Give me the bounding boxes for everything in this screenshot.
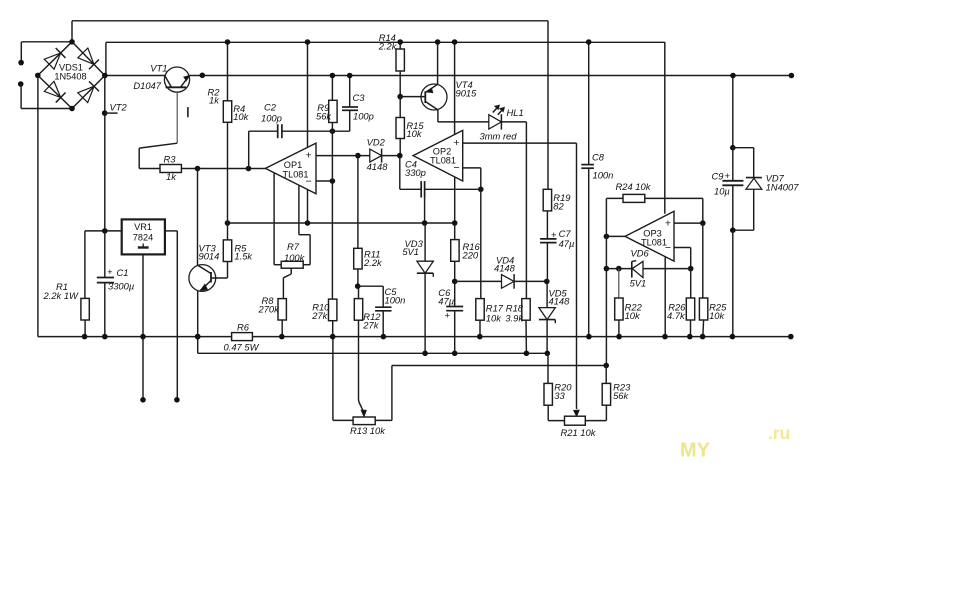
svg-text:C8: C8 [592, 152, 605, 163]
label R22 [625, 301, 643, 321]
resistor R26 [686, 269, 694, 340]
label R23 [613, 381, 631, 400]
wire OP3 + input [674, 220, 706, 226]
label R6 [224, 322, 260, 353]
resistor R17 [476, 189, 484, 339]
capacitor C9 [722, 148, 743, 231]
svg-text:4148: 4148 [549, 296, 571, 307]
svg-text:OP1: OP1 [284, 160, 302, 170]
wire OP1 V- pin [307, 189, 309, 223]
label VDS1 [54, 62, 86, 81]
label VD7 [766, 173, 800, 193]
svg-text:7824: 7824 [133, 233, 153, 243]
capacitor C4 [400, 156, 481, 198]
svg-text:9015: 9015 [456, 88, 478, 99]
wire second bus H2 [106, 42, 665, 75]
svg-text:+: + [725, 171, 731, 182]
svg-text:2.2k: 2.2k [363, 257, 383, 268]
svg-text:R24 10k: R24 10k [616, 181, 652, 192]
svg-text:R13 10k: R13 10k [350, 425, 386, 436]
svg-text:3.9k: 3.9k [505, 312, 524, 323]
node AC input upper [18, 42, 24, 65]
diode VD2 [370, 149, 400, 163]
label VD2 [367, 136, 389, 172]
label VD3 [402, 238, 423, 257]
label C6 [438, 287, 454, 306]
svg-text:33: 33 [554, 390, 565, 401]
svg-text:270k: 270k [258, 303, 281, 314]
label R8 [258, 295, 281, 315]
wire negative rail [198, 337, 548, 354]
label R19 [553, 192, 571, 212]
resistor R5 [211, 223, 232, 278]
svg-text:10k: 10k [406, 128, 422, 139]
wire OP3 output [603, 198, 625, 368]
label R11 [363, 248, 383, 268]
node VT3 emitter junction [195, 334, 201, 340]
wire OP1 + input [316, 153, 370, 159]
svg-text:1N4007: 1N4007 [766, 182, 800, 193]
svg-text:VD6: VD6 [631, 248, 650, 259]
label C1 [108, 267, 134, 292]
svg-text:5V1: 5V1 [402, 246, 419, 257]
wire VT4 collector to HL1 [438, 110, 489, 122]
resistor R11 [354, 156, 362, 289]
svg-text:47µ: 47µ [559, 238, 575, 249]
svg-text:C1: C1 [117, 267, 129, 278]
node VT4 base junction [397, 94, 403, 100]
svg-text:330p: 330p [405, 167, 426, 178]
svg-text:+: + [305, 149, 311, 161]
svg-text:4148: 4148 [367, 161, 389, 172]
label R21 [561, 427, 597, 438]
svg-text:TL081: TL081 [641, 237, 667, 247]
transistor VT3 [189, 265, 216, 340]
diode VD7 [733, 148, 762, 231]
potentiometer R13 [333, 417, 392, 425]
node AC input lower [18, 81, 72, 108]
op-amp OP2 [413, 130, 463, 181]
label VT4 [456, 79, 478, 99]
svg-text:47µ: 47µ [438, 295, 454, 306]
svg-text:27k: 27k [311, 310, 328, 321]
watermark [680, 423, 790, 462]
capacitor C5 [358, 286, 392, 339]
svg-text:VT2: VT2 [110, 102, 128, 113]
resistor R8 [278, 268, 291, 339]
label R12 [362, 311, 381, 330]
label C4 [405, 158, 426, 178]
svg-text:1N5408: 1N5408 [54, 71, 86, 81]
wire ground bus [38, 334, 794, 340]
label C7 [559, 228, 575, 249]
op-amp OP3 [625, 211, 674, 261]
svg-text:2.2k 1W: 2.2k 1W [43, 290, 80, 301]
svg-text:100n: 100n [593, 170, 614, 181]
zener diode VD6 [606, 261, 690, 278]
svg-text:+: + [444, 310, 450, 321]
svg-text:R21 10k: R21 10k [561, 427, 597, 438]
label R25 [709, 301, 727, 321]
wire top bus H1 [72, 21, 548, 42]
op-amp OP1 [265, 143, 316, 194]
wire OP2 V+ pin [452, 39, 458, 135]
resistor R19 [543, 189, 551, 211]
svg-text:1.5k: 1.5k [234, 251, 253, 262]
svg-text:82: 82 [553, 201, 564, 212]
label R17 [486, 303, 504, 324]
svg-text:TL081: TL081 [282, 170, 308, 180]
wire C9 column top [730, 73, 736, 151]
capacitor C3 [332, 73, 358, 132]
svg-text:3mm red: 3mm red [480, 131, 518, 142]
svg-text:1k: 1k [166, 171, 177, 182]
resistor R24 [607, 194, 703, 223]
label R7 [284, 241, 306, 263]
resistor R6 [232, 333, 253, 341]
resistor R3 [139, 165, 265, 173]
node VT2 [102, 110, 118, 116]
wire C4 to H4 [422, 198, 428, 226]
svg-text:1k: 1k [209, 95, 220, 106]
resistor R1 [81, 231, 89, 340]
svg-text:TL081: TL081 [430, 156, 456, 166]
svg-text:10k: 10k [625, 310, 641, 321]
label VT3 [199, 243, 220, 262]
resistor R23 [585, 366, 610, 421]
capacitor C2 [249, 124, 336, 168]
wire raw supply column [104, 76, 106, 231]
node output terminal A [174, 397, 180, 403]
label C9 [712, 171, 731, 197]
svg-text:10µ: 10µ [714, 186, 730, 197]
wire bridge left rail [37, 75, 39, 336]
svg-text:R7: R7 [287, 241, 300, 252]
svg-text:4.7k: 4.7k [667, 310, 686, 321]
label R2 [208, 86, 221, 105]
label R5 [234, 242, 253, 261]
node output terminal B [140, 397, 146, 403]
resistor R22 [615, 266, 623, 340]
resistor R16 [451, 223, 459, 284]
transistor VT1 [164, 67, 189, 143]
resistor R9 [329, 73, 337, 132]
wire OP1 - input [316, 178, 335, 184]
wire main +raw bus H3 left [105, 75, 165, 77]
wire OP2 + input [463, 142, 577, 144]
svg-text:100p: 100p [261, 113, 282, 124]
capacitor C8 [581, 39, 594, 339]
label R10 [311, 301, 330, 321]
wire VR1 ground pin [140, 254, 146, 399]
wire R13 wiper [359, 400, 367, 417]
label R15 [406, 120, 424, 139]
zener diode VD5 [539, 281, 555, 356]
resistor R14 [396, 39, 404, 96]
svg-text:+: + [107, 267, 112, 277]
label R1 [43, 281, 80, 301]
svg-text:C9: C9 [712, 171, 725, 182]
label R3 [164, 154, 178, 183]
capacitor C6 [444, 281, 463, 356]
capacitor C1 [97, 231, 114, 340]
wire OP1 V+ pin [305, 39, 311, 148]
wire OP3 - input [674, 248, 694, 272]
resistor R25 [699, 223, 707, 339]
potentiometer R7 [274, 186, 310, 268]
capacitor C7 [540, 211, 557, 282]
svg-text:VD2: VD2 [367, 136, 386, 147]
transistor VT4 [400, 39, 447, 110]
resistor R18 [522, 143, 530, 356]
svg-text:56k: 56k [316, 110, 332, 121]
svg-text:R6: R6 [237, 322, 250, 333]
wire OP2 V- pin [452, 177, 458, 226]
svg-text:C3: C3 [353, 92, 366, 103]
wire OP2 wiper link [574, 143, 579, 416]
wire R10 to R13 [332, 337, 334, 421]
label VD5 [549, 287, 571, 306]
stray mark [187, 107, 189, 117]
svg-text:9014: 9014 [199, 251, 220, 262]
wire OP3 V- pin [662, 257, 668, 339]
wire H1 descender [547, 21, 549, 190]
svg-text:10k: 10k [486, 312, 502, 323]
svg-text:3300µ: 3300µ [108, 281, 134, 292]
resistor R20 [544, 353, 565, 420]
bridge rectifier VDS1 [35, 39, 108, 111]
label R16 [462, 241, 481, 260]
label R26 [667, 301, 686, 321]
svg-text:0.47 5W: 0.47 5W [224, 342, 260, 353]
diode VD4 [455, 274, 550, 289]
svg-text:+: + [453, 137, 459, 149]
wire reference bus H4 [225, 220, 455, 226]
label VD4 [494, 254, 516, 273]
label R18 [505, 303, 524, 324]
svg-text:VR1: VR1 [134, 222, 152, 232]
label VT2 [110, 102, 128, 113]
wire R13-OP3 link [392, 366, 606, 421]
label VD6 [630, 248, 650, 289]
resistor R12 [354, 286, 362, 399]
wire OP1 null pin [273, 173, 275, 265]
potentiometer R21 [565, 416, 586, 425]
wire OP2 - input [463, 168, 484, 192]
label R9 [316, 102, 332, 121]
svg-text:27k: 27k [362, 320, 379, 331]
svg-text:.ru: .ru [768, 423, 790, 443]
svg-text:D1047: D1047 [133, 80, 161, 91]
label R20 [554, 381, 572, 400]
resistor R15 [396, 97, 404, 159]
wire main +raw bus H3 right [190, 73, 795, 79]
regulator VR1 [122, 219, 165, 254]
label C3 [353, 92, 374, 122]
wire C9 column bottom [730, 227, 736, 339]
resistor R4 [223, 39, 231, 223]
svg-text:MY: MY [680, 440, 711, 462]
resistor R10 [329, 299, 337, 339]
svg-text:56k: 56k [613, 390, 629, 401]
svg-text:10k: 10k [709, 310, 725, 321]
label R24 [616, 181, 652, 192]
svg-text:10k: 10k [233, 111, 249, 122]
svg-text:100n: 100n [385, 295, 406, 306]
svg-text:4148: 4148 [494, 263, 516, 274]
svg-text:R3: R3 [164, 154, 177, 165]
svg-text:100k: 100k [284, 252, 306, 263]
label C5 [385, 286, 406, 306]
label C2 [261, 102, 282, 124]
wire second bus H2 left [21, 41, 72, 43]
svg-text:+: + [551, 230, 557, 241]
wire OP1 out to VT3 [197, 169, 199, 266]
svg-text:+: + [665, 218, 671, 230]
label R14 [378, 32, 398, 51]
wire OP3 V+ pin [664, 42, 666, 214]
svg-text:2.2k: 2.2k [378, 41, 398, 52]
label R4 [233, 103, 249, 122]
svg-text:C2: C2 [264, 102, 277, 113]
label VT1 [133, 62, 167, 91]
svg-text:HL1: HL1 [507, 107, 524, 118]
svg-text:100p: 100p [353, 111, 374, 122]
label R13 [350, 425, 386, 436]
LED HL1 [489, 105, 527, 143]
wire VR1 input [85, 228, 122, 234]
zener diode VD3 [417, 223, 433, 356]
wire VT1 base jog [139, 143, 177, 168]
svg-text:VT1: VT1 [150, 62, 167, 73]
label C8 [592, 152, 613, 181]
svg-text:220: 220 [462, 249, 479, 260]
label HL1 [480, 107, 524, 142]
wire R9 column to R10 [331, 131, 333, 299]
svg-text:5V1: 5V1 [630, 277, 647, 288]
wire VR1 output [165, 231, 177, 400]
